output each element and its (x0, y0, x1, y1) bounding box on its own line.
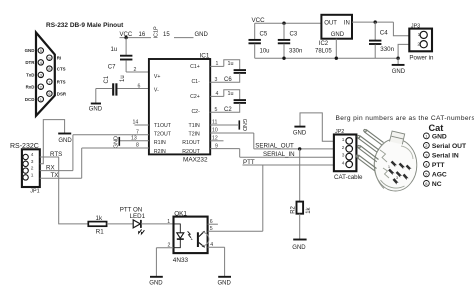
wire OK1 pin 4 to ground (208, 242, 225, 277)
OK1 phototransistor (197, 231, 209, 247)
svg-text:RI: RI (57, 55, 61, 60)
svg-text:1: 1 (31, 172, 34, 178)
svg-text:2: 2 (40, 84, 42, 89)
svg-text:RS-232 DB-9 Male Pinout: RS-232 DB-9 Male Pinout (46, 22, 124, 29)
svg-text:TxD: TxD (26, 73, 34, 78)
svg-text:5: 5 (40, 48, 42, 53)
legend item 5 AGC (424, 171, 447, 178)
wire IC1 pin 10 / net SERIAL_OUT (210, 128, 334, 150)
svg-text:4: 4 (31, 152, 34, 158)
svg-text:IC1P: IC1P (154, 26, 160, 39)
net RX (40, 165, 73, 172)
svg-text:1k: 1k (306, 206, 312, 213)
ground at C1 (89, 89, 103, 113)
net label VCC rail (252, 17, 322, 24)
CAT DIN connector illustration (374, 131, 417, 191)
svg-text:Serial OUT: Serial OUT (432, 143, 467, 150)
svg-text:6: 6 (48, 91, 50, 96)
wire IC1 pin 7 to JP1 RX (73, 129, 149, 170)
net label VCC pin 16 of IC1 (120, 32, 152, 38)
svg-text:RxD: RxD (26, 84, 35, 89)
svg-text:13: 13 (131, 136, 137, 142)
IC1 pin name labels (154, 64, 201, 155)
svg-text:CAT-cable: CAT-cable (334, 174, 363, 181)
svg-text:LED1: LED1 (130, 213, 146, 220)
svg-text:7: 7 (48, 79, 50, 84)
wire IC2 GND to rail (335, 39, 337, 59)
svg-text:C1+: C1+ (190, 64, 200, 70)
DB9 pin 5 (38, 48, 43, 53)
node SERIAL_OUT junction (298, 147, 301, 150)
wire IC1 pin 9 / net SERIAL_IN (210, 143, 334, 158)
svg-text:R1: R1 (96, 228, 104, 235)
svg-text:NC: NC (432, 181, 442, 188)
capacitor C3 (278, 23, 303, 58)
svg-text:R1IN: R1IN (154, 140, 166, 146)
svg-text:GND: GND (113, 136, 119, 148)
JP3 pin 2 (417, 41, 427, 48)
JP1 pin 4 (23, 152, 34, 160)
svg-text:1k: 1k (96, 215, 103, 222)
svg-text:1u: 1u (228, 61, 234, 67)
JP2 pin 2 (342, 145, 353, 152)
svg-text:OUT: OUT (324, 20, 337, 26)
legend item 6 NC (424, 181, 442, 188)
svg-text:C2-: C2- (191, 109, 200, 115)
svg-text:C2+: C2+ (190, 94, 200, 100)
svg-text:15: 15 (163, 32, 170, 38)
connector JP3 Power in (409, 24, 434, 62)
svg-text:RTS: RTS (50, 151, 62, 158)
node C4 top (374, 20, 377, 23)
ground at power rail (392, 58, 406, 75)
svg-text:78L05: 78L05 (315, 48, 332, 54)
legend item 4 PTT (424, 162, 446, 169)
JP1 pin 1 (23, 172, 34, 180)
svg-text:T1IN: T1IN (189, 123, 200, 129)
svg-text:R2: R2 (291, 205, 297, 213)
ground at OK1 pin 4 (218, 277, 232, 287)
svg-text:MAX232: MAX232 (183, 156, 208, 163)
JP1 pin 2 (23, 166, 34, 174)
legend item 1 GND (424, 133, 447, 140)
svg-text:DTR: DTR (25, 60, 35, 65)
resistor R1 (88, 215, 106, 236)
svg-text:2: 2 (31, 166, 34, 172)
svg-text:C4: C4 (380, 30, 388, 37)
svg-text:IC1: IC1 (200, 52, 210, 59)
DB9 pin 4 (38, 60, 43, 65)
svg-text:6: 6 (138, 83, 141, 89)
svg-text:9: 9 (48, 55, 50, 60)
svg-text:GND: GND (392, 69, 406, 75)
ground at IC1 pin 11 (210, 119, 247, 131)
svg-text:14: 14 (133, 120, 139, 126)
LED LED1 PTT ON (120, 207, 146, 236)
wire OK1 pin 2 to ground (156, 242, 173, 276)
JP2 pin 1 (342, 137, 353, 144)
node C3 bottom (282, 57, 285, 60)
svg-text:330n: 330n (289, 49, 302, 55)
ground at IC1 pin 13 (113, 136, 149, 149)
svg-text:IN: IN (344, 20, 350, 26)
JP2 pin 3 (342, 153, 353, 160)
capacitor C1 (96, 75, 149, 95)
IC IC1 MAX232 body (149, 52, 210, 163)
capacitor C6 (210, 60, 246, 83)
JP2 pin 4 (342, 160, 353, 167)
svg-text:1u: 1u (228, 91, 234, 97)
svg-text:SERIAL_OUT: SERIAL_OUT (255, 143, 294, 150)
svg-text:3: 3 (31, 159, 34, 165)
DB9 pin 1 (38, 97, 43, 102)
svg-text:C6: C6 (224, 77, 232, 83)
CAT connector face pins (389, 162, 411, 184)
wire IC1 pin 8 to JP1 TX (82, 143, 149, 179)
regulator IC2 78L05 (315, 15, 352, 55)
wire ground rail (255, 57, 398, 59)
svg-text:10: 10 (212, 128, 218, 134)
wire LED1 to OK1 pin 1 (141, 219, 174, 225)
svg-text:4N33: 4N33 (173, 257, 189, 264)
net label GND pin 15 of IC1 (163, 32, 209, 38)
svg-text:12: 12 (212, 136, 218, 142)
svg-text:6: 6 (210, 219, 213, 225)
net PTT (243, 159, 334, 231)
svg-text:4: 4 (210, 242, 213, 248)
svg-text:T2OUT: T2OUT (154, 132, 172, 138)
ground below DB9 (58, 134, 72, 144)
svg-text:C2: C2 (224, 107, 232, 113)
svg-text:4: 4 (342, 160, 345, 166)
svg-text:IC2: IC2 (319, 41, 329, 47)
node VCC junction (124, 36, 127, 39)
node C3 top (282, 22, 285, 25)
wire OK1 pin 5 to PTT (208, 226, 263, 232)
svg-text:T1OUT: T1OUT (154, 123, 172, 129)
svg-text:RTS: RTS (57, 79, 66, 84)
svg-text:JP1: JP1 (30, 189, 39, 195)
svg-text:C3: C3 (290, 32, 298, 38)
capacitor C4 (369, 22, 395, 58)
resistor R2 (291, 149, 313, 214)
svg-text:9: 9 (215, 143, 218, 149)
svg-text:R2IN: R2IN (154, 149, 166, 155)
net RTS from JP1 to R1 (40, 151, 89, 224)
ground at R2 (292, 214, 306, 251)
svg-text:R1OUT: R1OUT (182, 140, 200, 146)
svg-text:1: 1 (167, 219, 170, 225)
svg-text:1: 1 (418, 32, 421, 38)
svg-text:Berg pin numbers are as the CA: Berg pin numbers are as the CAT-numbers- (336, 115, 474, 122)
svg-text:Serial IN: Serial IN (432, 152, 459, 159)
svg-text:Power in: Power in (409, 54, 434, 61)
DB9 pin 7 (47, 79, 52, 84)
wire to JP3 pin 1 (393, 22, 409, 36)
svg-text:GND: GND (195, 32, 209, 38)
svg-text:GND: GND (218, 281, 232, 287)
svg-text:1u: 1u (111, 47, 118, 53)
OK1 light arrow (188, 231, 191, 238)
legend item 2 Serial OUT (424, 143, 468, 150)
JP3 pin 1 (418, 31, 428, 38)
DB9 pin 8 (47, 66, 52, 71)
svg-text:GND: GND (89, 106, 103, 112)
svg-text:V+: V+ (154, 74, 161, 80)
svg-text:GND: GND (149, 281, 163, 287)
svg-text:GND: GND (292, 245, 306, 251)
DB9 pin 3 (38, 72, 43, 77)
ground at OK1 pin 2 (149, 277, 163, 287)
svg-text:C1: C1 (104, 75, 110, 83)
wire R1 to LED1 (107, 223, 134, 225)
svg-text:1: 1 (40, 97, 42, 102)
svg-text:CTS: CTS (57, 66, 66, 71)
legend item 3 Serial IN (424, 152, 459, 159)
svg-text:2: 2 (342, 145, 345, 151)
CAT connector cable pins (356, 129, 384, 171)
svg-text:3: 3 (342, 153, 345, 159)
svg-text:TX: TX (51, 172, 59, 179)
svg-text:C5: C5 (260, 32, 268, 38)
net TX (40, 172, 82, 179)
DB9 pin 9 (47, 55, 52, 60)
svg-text:PTT: PTT (243, 159, 255, 166)
svg-text:330n: 330n (380, 46, 394, 53)
svg-text:1: 1 (342, 137, 345, 143)
connector JP2 (334, 129, 363, 181)
capacitor C5 (249, 23, 270, 58)
svg-text:R2OUT: R2OUT (182, 149, 200, 155)
svg-text:JP2: JP2 (335, 129, 344, 135)
wire JP1 pin3 to ground (40, 120, 65, 164)
wire IC1 pin 12 stub (210, 136, 223, 142)
OK1 internal LED (174, 224, 184, 248)
svg-text:GND: GND (432, 133, 447, 140)
node rail end (396, 57, 399, 60)
DB9 connector body (36, 33, 55, 116)
svg-text:T2IN: T2IN (189, 132, 200, 138)
wire OK1 pin 6 stub (208, 219, 218, 225)
connector JP1 RS-232C (10, 143, 40, 195)
svg-text:2: 2 (168, 242, 171, 248)
svg-text:SERIAL_IN: SERIAL_IN (263, 151, 295, 158)
wire C7 to IC1 pin 2 (126, 67, 149, 73)
svg-text:4: 4 (216, 91, 219, 97)
svg-text:AGC: AGC (432, 171, 447, 178)
capacitor C2 (210, 90, 246, 113)
svg-text:8: 8 (48, 66, 50, 71)
DB9 pin 6 (47, 91, 52, 96)
svg-text:GND: GND (241, 119, 247, 131)
svg-text:C1-: C1- (191, 79, 200, 85)
svg-text:V-: V- (154, 87, 159, 93)
svg-text:PTT: PTT (432, 162, 446, 169)
svg-text:1u: 1u (120, 75, 126, 82)
svg-text:3: 3 (40, 73, 42, 78)
svg-text:C7: C7 (108, 64, 116, 70)
svg-text:DCD: DCD (25, 97, 35, 102)
svg-text:3: 3 (396, 176, 398, 180)
svg-text:RX: RX (46, 165, 55, 172)
JP1 pin 3 (23, 159, 34, 167)
svg-text:2: 2 (134, 67, 137, 73)
node IC2 gnd (335, 57, 338, 60)
svg-text:10u: 10u (260, 49, 270, 55)
wire IC2 IN (352, 21, 393, 23)
wire IC1 pin 14 stub (133, 120, 149, 126)
svg-text:GND: GND (331, 32, 345, 38)
svg-text:1: 1 (388, 165, 390, 169)
ground at JP2 pin 1 (293, 113, 334, 141)
svg-text:2: 2 (417, 41, 420, 47)
optocoupler OK1 4N33 (173, 210, 208, 263)
svg-text:3: 3 (215, 77, 218, 83)
svg-text:5: 5 (215, 107, 218, 113)
wire JP3 pin 2 to ground rail (398, 44, 409, 58)
svg-text:1: 1 (216, 61, 219, 67)
svg-text:Cat: Cat (429, 123, 444, 133)
svg-text:7: 7 (136, 129, 139, 135)
DB9 right labels (57, 55, 67, 96)
svg-text:DSR: DSR (57, 91, 67, 96)
svg-text:5: 5 (210, 226, 213, 232)
svg-text:GND: GND (25, 48, 35, 53)
DB9 left labels (25, 48, 36, 102)
svg-text:11: 11 (212, 120, 217, 126)
svg-text:GND: GND (58, 138, 72, 144)
svg-text:8: 8 (136, 143, 139, 149)
DB9 pin 2 (38, 84, 43, 89)
capacitor C7 (108, 38, 133, 72)
svg-text:JP3: JP3 (411, 24, 420, 30)
svg-text:GND: GND (293, 130, 307, 136)
